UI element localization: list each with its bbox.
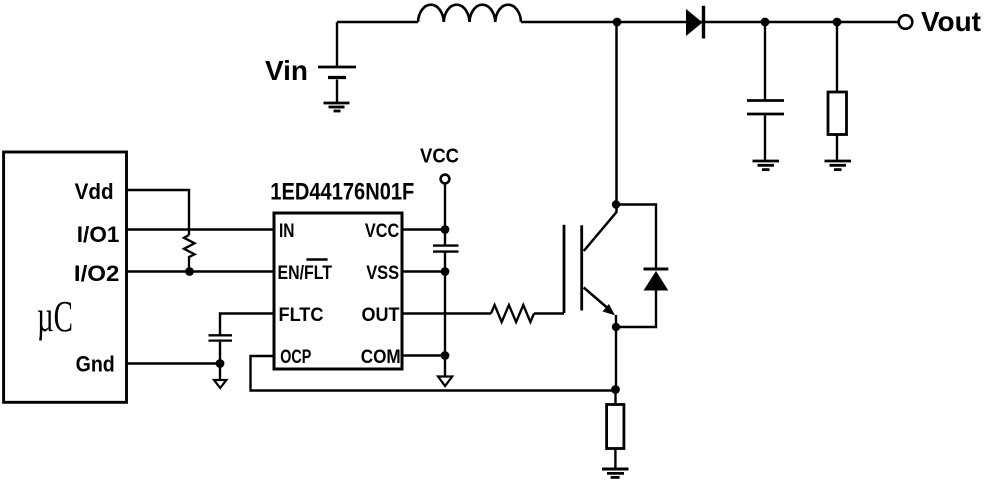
svg-text:1ED44176N01F: 1ED44176N01F: [270, 179, 414, 206]
svg-text:FLTC: FLTC: [279, 305, 324, 326]
svg-text:IN: IN: [279, 221, 295, 242]
svg-text:EN/FLT: EN/FLT: [278, 263, 333, 284]
svg-text:VCC: VCC: [420, 146, 459, 168]
svg-text:I/O2: I/O2: [74, 261, 120, 286]
svg-text:Vout: Vout: [921, 6, 981, 37]
svg-text:Vin: Vin: [265, 55, 308, 86]
svg-text:VSS: VSS: [366, 263, 399, 284]
svg-text:µC: µC: [37, 292, 73, 341]
svg-text:VCC: VCC: [365, 221, 400, 242]
svg-text:Gnd: Gnd: [76, 352, 115, 377]
svg-text:COM: COM: [361, 347, 401, 368]
svg-text:OUT: OUT: [362, 305, 400, 326]
svg-text:OCP: OCP: [280, 347, 311, 368]
svg-text:I/O1: I/O1: [77, 222, 120, 247]
svg-text:Vdd: Vdd: [75, 179, 114, 204]
